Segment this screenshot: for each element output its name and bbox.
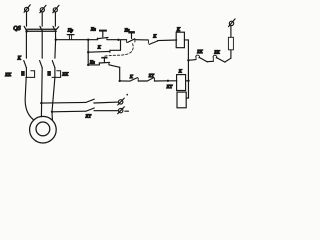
wire L2 switch to contact <box>41 31 43 58</box>
thermal contact KK1 <box>196 55 208 62</box>
braking wire upper right <box>94 101 119 104</box>
motor M <box>30 116 57 143</box>
svg-text:КТ: КТ <box>148 73 155 78</box>
svg-text:QS: QS <box>13 26 20 32</box>
wire start to contact K <box>135 39 148 41</box>
node N1 <box>187 59 189 61</box>
svg-text:К: К <box>152 33 157 38</box>
svg-text:К: К <box>129 74 134 79</box>
svg-text:КТ: КТ <box>166 84 173 89</box>
fuse FU right <box>228 26 233 59</box>
supply terminal L1 <box>24 5 30 13</box>
wire N1 to KK1 <box>188 59 196 62</box>
braking contact T lower <box>87 108 95 111</box>
mechanical link dashed <box>105 43 133 56</box>
wire KK1 to KK2 <box>207 60 213 62</box>
auxiliary contact K shunt <box>110 40 121 53</box>
wire L1 heater to motor <box>25 77 33 119</box>
thermal heater KK1 <box>21 71 34 78</box>
wire KK2 to right bus <box>225 58 231 62</box>
svg-text:КК: КК <box>196 49 203 54</box>
node B <box>117 39 119 41</box>
thermal contact KK2 <box>213 55 225 62</box>
wire L1 contact to heater <box>25 68 27 78</box>
terminal DC minus <box>118 107 129 114</box>
node row B left <box>119 80 121 82</box>
contactor main contact K pole1 <box>24 61 27 68</box>
supply terminal control <box>229 19 236 27</box>
svg-text:К: К <box>97 45 102 50</box>
lower button Kn2 break contact <box>99 57 110 65</box>
thermal heater KK2 <box>47 71 60 78</box>
wire L3 switch to contact <box>54 31 57 58</box>
fuse FU control left <box>67 35 74 40</box>
braking wire upper <box>41 101 86 104</box>
wire left bus <box>87 40 89 65</box>
wire coil K2 to vertical <box>186 80 189 82</box>
knife switch QS <box>24 26 59 32</box>
node braking tap lower <box>51 111 53 113</box>
wire row A to drop <box>109 65 120 68</box>
coil KT time relay <box>177 92 186 108</box>
wire into coil K2 <box>168 80 177 82</box>
node row A corner <box>87 64 89 66</box>
wire L2 drop to switch <box>41 12 43 26</box>
auxiliary contact K top rail <box>148 41 157 45</box>
svg-text:КК: КК <box>4 72 12 77</box>
wire right vertical N1 down <box>186 60 188 98</box>
wire control feed <box>56 39 98 41</box>
coil K2 braking contactor <box>177 75 186 91</box>
wire L3 heater to motor <box>52 77 55 120</box>
contactor main contact K pole2 <box>40 61 43 68</box>
wire row B right <box>154 80 168 82</box>
node braking tap upper <box>40 102 42 104</box>
svg-text:КТ: КТ <box>85 114 92 119</box>
wire contact to coil K <box>158 39 177 42</box>
svg-text:КК: КК <box>61 72 69 77</box>
svg-text:К: К <box>17 57 22 62</box>
svg-text:К: К <box>176 28 181 33</box>
node A <box>87 39 89 41</box>
svg-text:Кн: Кн <box>90 26 96 31</box>
wire L3 contact to heater <box>54 68 56 78</box>
braking contact T upper <box>87 99 95 102</box>
supply terminal L2 <box>40 5 46 13</box>
auxiliary contact KT row B <box>147 78 154 82</box>
stop button Kn1 <box>97 30 108 40</box>
contactor main contact K pole3 <box>52 61 55 68</box>
wire row B middle <box>138 80 147 82</box>
coil K contactor <box>176 32 184 48</box>
start button Kn2 <box>127 31 135 42</box>
wire coil K to node N1 <box>184 40 188 60</box>
braking wire lower right <box>94 110 119 112</box>
wire L2 contact to motor <box>40 68 43 117</box>
node control tap on L3 <box>55 39 57 41</box>
supply terminal L3 <box>53 5 59 13</box>
wire L1 drop to switch <box>26 12 28 27</box>
braking wire lower <box>52 110 86 113</box>
svg-text:КК: КК <box>213 49 220 54</box>
svg-text:К: К <box>178 69 183 74</box>
wire L1 switch to contact <box>25 31 27 58</box>
wire row B start <box>120 80 130 82</box>
svg-text:Пр: Пр <box>67 28 74 33</box>
wire shunt branch <box>88 50 110 53</box>
node coil K2 right <box>187 80 189 82</box>
node shunt tap <box>87 51 89 53</box>
wire row A <box>88 64 99 66</box>
auxiliary contact K row B <box>130 78 138 82</box>
wire stop to start <box>107 39 127 41</box>
wire drop to row B <box>119 67 121 81</box>
wire L3 drop to switch <box>54 12 56 26</box>
terminal DC plus <box>118 94 128 105</box>
svg-text:Кн: Кн <box>89 60 95 65</box>
svg-text:Кн: Кн <box>124 27 130 32</box>
node coil feed <box>167 80 169 82</box>
